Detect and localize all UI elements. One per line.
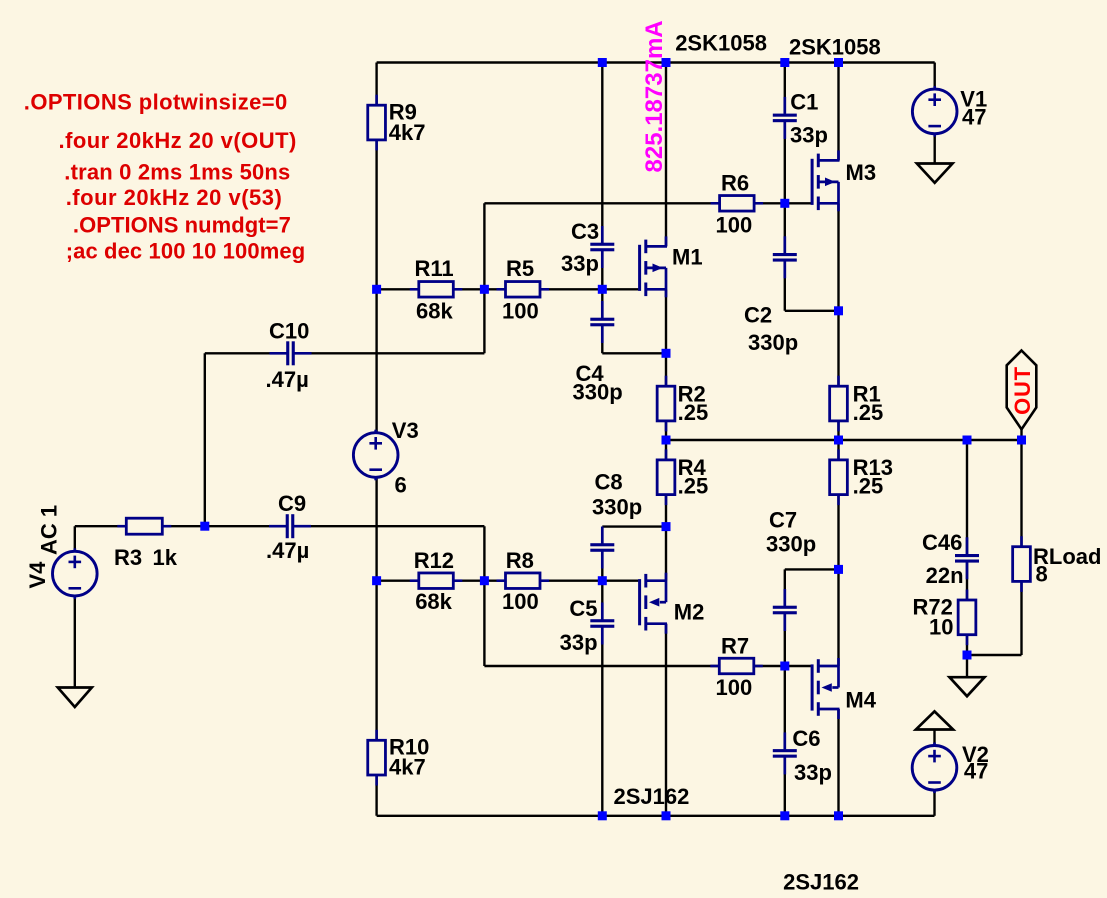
svg-text:68k: 68k <box>415 589 452 614</box>
wire C10-C9 link column <box>204 353 206 526</box>
capacitor C10 <box>270 341 312 366</box>
resistor R7 <box>710 658 763 674</box>
voltage source V3 <box>353 430 398 481</box>
svg-text:330p: 330p <box>766 532 816 557</box>
capacitor C1 <box>772 97 797 139</box>
wire C2 bottom row <box>785 310 839 312</box>
wire C8/C5 column <box>601 527 603 816</box>
junction bottom rail / M4 drain <box>834 811 843 820</box>
wire M3 source / R1 / R13 / M4 source column <box>837 203 839 666</box>
junction M1 source / C4 / R2 node <box>662 349 671 358</box>
svg-text:.25: .25 <box>678 400 709 425</box>
svg-text:C2: C2 <box>744 303 772 328</box>
wire load return row <box>967 654 1022 656</box>
capacitor C5 <box>590 603 615 645</box>
svg-text:33p: 33p <box>790 122 828 147</box>
svg-text:.25: .25 <box>853 474 884 499</box>
svg-text:100: 100 <box>716 212 753 237</box>
resistor R72 <box>958 590 976 646</box>
svg-text:.25: .25 <box>853 400 884 425</box>
transistor M4 (pmos 2SJ162) <box>812 658 839 719</box>
resistor R10 <box>368 730 386 786</box>
voltage source V1 <box>912 86 957 137</box>
wire riser lower (C9 to R7 row) <box>483 526 485 666</box>
svg-text:M3: M3 <box>846 160 877 185</box>
wire C8 top row <box>602 525 666 527</box>
transistor M2 (pmos 2SJ162) <box>640 573 667 634</box>
svg-text:100: 100 <box>716 675 753 700</box>
svg-text:22n: 22n <box>926 563 964 588</box>
svg-text:C7: C7 <box>769 508 797 533</box>
svg-text:V4: V4 <box>25 561 50 589</box>
ground below R72 <box>950 677 985 696</box>
svg-text:R11: R11 <box>415 256 454 281</box>
svg-text:.tran 0 2ms 1ms 50ns: .tran 0 2ms 1ms 50ns <box>64 160 290 185</box>
wire V2 bottom stem <box>933 790 935 816</box>
transistor M1 (nmos 2SK1058) <box>640 236 667 297</box>
resistor R9 <box>368 95 386 151</box>
wire gate-drive row to R7/M4 <box>484 665 811 667</box>
junction R10-R12 node <box>372 576 381 585</box>
svg-text:M1: M1 <box>672 244 703 269</box>
wire bottom rail <box>377 815 935 817</box>
svg-text:OUT: OUT <box>1010 366 1035 415</box>
ground below V4 <box>58 688 92 708</box>
wire gate-drive row to R6/M3 <box>484 202 811 204</box>
junction R11-R5 / riser node <box>480 285 489 294</box>
junction R3 / C9 / link node <box>200 522 209 531</box>
junction top rail / C1 column <box>780 58 789 67</box>
junction R4 / C8 / M2 source node <box>662 522 671 531</box>
svg-text:R6: R6 <box>721 171 749 196</box>
svg-text:47: 47 <box>964 759 988 784</box>
OUT port flag <box>1007 351 1037 430</box>
svg-text:825.18737mA: 825.18737mA <box>641 20 668 172</box>
junction R7 / C6 / M4 gate node <box>780 662 789 671</box>
svg-text:8: 8 <box>1036 561 1048 586</box>
wire OUT row <box>666 439 1022 441</box>
capacitor C9 <box>269 514 311 539</box>
ground below V1 <box>917 164 953 183</box>
resistor R1 <box>830 376 848 432</box>
svg-text:C6: C6 <box>792 726 820 751</box>
svg-text:R3: R3 <box>114 545 142 570</box>
svg-text:.OPTIONS plotwinsize=0: .OPTIONS plotwinsize=0 <box>24 90 288 115</box>
wire top supply rail <box>377 61 935 63</box>
junction OUT / C46 node <box>963 436 972 445</box>
supply arrow above V2 <box>916 711 953 729</box>
wire M2 drain to bottom rail <box>665 624 667 816</box>
junction R12-R8 / riser node <box>480 576 489 585</box>
svg-text:.47µ: .47µ <box>266 538 309 563</box>
svg-text:33p: 33p <box>561 251 599 276</box>
capacitor C7 <box>772 589 797 631</box>
svg-text:100: 100 <box>502 299 539 324</box>
wire C3/C4 column <box>601 63 603 354</box>
svg-text:68k: 68k <box>416 299 453 324</box>
junction top rail / C3 column <box>598 58 607 67</box>
wire M1 source / R2 / R4 / M2 source column <box>665 289 667 580</box>
resistor R8 <box>497 573 550 589</box>
svg-text:330p: 330p <box>592 495 642 520</box>
svg-text:2SJ162: 2SJ162 <box>783 869 859 894</box>
wire OUT flag stem <box>1020 429 1022 440</box>
svg-text:33p: 33p <box>560 630 598 655</box>
svg-text:.four 20kHz 20 v(OUT): .four 20kHz 20 v(OUT) <box>59 128 297 153</box>
svg-text:6: 6 <box>395 473 407 498</box>
svg-text:AC 1: AC 1 <box>37 505 62 555</box>
svg-text:33p: 33p <box>794 760 832 785</box>
transistor M3 (nmos 2SK1058) <box>812 150 839 211</box>
wire C1/C2 column <box>784 63 786 311</box>
junction C2 / M3 source / R1 node <box>834 306 843 315</box>
capacitor C3 <box>590 226 615 268</box>
wire V4 column <box>74 526 76 687</box>
svg-text:.four 20kHz 20 v(53): .four 20kHz 20 v(53) <box>66 185 283 210</box>
junction R5 / C3-C4 / M1 gate node <box>598 285 607 294</box>
svg-text:M2: M2 <box>674 600 705 625</box>
svg-text:C8: C8 <box>595 470 623 495</box>
junction R6 / C1-C2 / M3 gate node <box>780 199 789 208</box>
junction R8 / C8-C5 / M2 gate node <box>598 576 607 585</box>
wire C7/C6 column <box>784 569 786 815</box>
resistor R12 <box>410 573 463 589</box>
junction R72 / load return node <box>963 651 972 660</box>
junction OUT / RLoad node <box>1017 436 1026 445</box>
junction top rail / M3 drain <box>834 58 843 67</box>
capacitor C46 <box>955 537 980 579</box>
svg-text:C1: C1 <box>790 90 818 115</box>
resistor R2 <box>657 376 675 432</box>
svg-text:.OPTIONS numdgt=7: .OPTIONS numdgt=7 <box>73 212 291 237</box>
svg-text:C9: C9 <box>278 491 306 516</box>
wire C4 bottom row <box>602 352 666 354</box>
svg-text:2SK1058: 2SK1058 <box>675 31 767 56</box>
junction bottom rail / C6 column <box>780 811 789 820</box>
svg-text:.25: .25 <box>678 474 709 499</box>
wire C46/R72 column <box>966 440 968 655</box>
svg-text:47: 47 <box>962 104 986 129</box>
svg-text:V3: V3 <box>392 418 419 443</box>
capacitor C8 <box>590 527 615 569</box>
junction R13 / C7 / M4 source node <box>834 565 843 574</box>
svg-text:4k7: 4k7 <box>389 120 426 145</box>
wire V2 top stem to arrow <box>933 730 935 747</box>
svg-text:R7: R7 <box>721 633 749 658</box>
svg-text:R5: R5 <box>506 256 534 281</box>
resistor R3 <box>117 518 171 534</box>
wire main left column (R9/V3/R10) <box>375 63 377 816</box>
svg-text:100: 100 <box>502 589 539 614</box>
junction top rail / M1 drain <box>662 58 671 67</box>
wire M4 drain to bottom rail <box>837 709 839 816</box>
svg-text:C3: C3 <box>571 219 599 244</box>
svg-text:R8: R8 <box>506 548 534 573</box>
svg-text:.47µ: .47µ <box>266 367 309 392</box>
wire R11/R5 row to M1 gate <box>377 288 639 290</box>
junction bottom rail / C5 column <box>598 811 607 820</box>
svg-text:330p: 330p <box>573 380 623 405</box>
junction R2-R4 / OUT node <box>662 436 671 445</box>
wire R72 to ground <box>966 655 968 677</box>
svg-text:4k7: 4k7 <box>389 755 426 780</box>
wire input row (V4/R3/C9) <box>75 525 485 527</box>
wire riser upper (C10 to R6 row) <box>483 203 485 353</box>
svg-text:1k: 1k <box>153 545 178 570</box>
wire C7 top row <box>785 568 839 570</box>
capacitor C6 <box>772 732 797 774</box>
resistor RLoad <box>1013 536 1031 592</box>
wire M1 drain column <box>665 63 667 247</box>
svg-text:M4: M4 <box>845 688 876 713</box>
junction bottom rail / M2 drain <box>662 811 671 820</box>
svg-text:C5: C5 <box>569 596 597 621</box>
resistor R5 <box>497 282 550 298</box>
wire M3 drain column <box>837 63 839 161</box>
svg-text:C46: C46 <box>922 530 962 555</box>
svg-text:C10: C10 <box>269 319 309 344</box>
svg-text:;ac dec 100 10 100meg: ;ac dec 100 10 100meg <box>66 239 306 264</box>
junction R1-R13 / OUT node <box>834 436 843 445</box>
capacitor C4 <box>590 301 615 343</box>
resistor R4 <box>657 449 675 505</box>
svg-text:2SK1058: 2SK1058 <box>789 35 881 60</box>
voltage source V4 <box>53 548 98 599</box>
wire V1 top stem <box>934 63 936 91</box>
wire V1 to ground <box>934 134 936 164</box>
svg-text:R12: R12 <box>414 548 454 573</box>
wire RLoad column <box>1020 440 1022 655</box>
svg-text:330p: 330p <box>748 330 798 355</box>
junction R9-R11 node <box>372 285 381 294</box>
resistor R6 <box>711 196 764 212</box>
svg-text:10: 10 <box>929 615 953 640</box>
resistor R11 <box>410 282 463 298</box>
svg-text:2SJ162: 2SJ162 <box>614 784 690 809</box>
capacitor C2 <box>772 236 797 278</box>
wire R12/R8 row to M2 gate <box>377 580 639 582</box>
voltage source V2 <box>912 743 957 794</box>
resistor R13 <box>830 449 848 505</box>
wire C10 row <box>205 352 485 354</box>
